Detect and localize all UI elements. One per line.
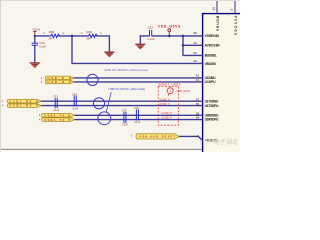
wire reset to chip bbox=[179, 136, 203, 141]
wire TX_N to chip U1RXDNU bbox=[75, 114, 203, 116]
svg-text:VBUSM: VBUSM bbox=[205, 62, 216, 66]
pin 36 U1TXDPU bbox=[196, 102, 219, 108]
pin 41 U1DPU bbox=[196, 78, 216, 84]
pin 42 U1DMU bbox=[196, 74, 216, 81]
wire USB_D_P to chip bbox=[74, 81, 203, 83]
net label USB1_TX_P bbox=[39, 118, 75, 122]
net label USB_D_N bbox=[41, 76, 74, 80]
svg-text:U1TXDPU: U1TXDPU bbox=[205, 104, 219, 108]
pin label VDD33A (vertical) bbox=[234, 15, 238, 35]
svg-text:0.1uF: 0.1uF bbox=[53, 110, 59, 112]
svg-text:9: 9 bbox=[230, 9, 234, 11]
pin 48 V3REGIN bbox=[193, 31, 219, 38]
svg-text:doNET_USB2: doNET_USB2 bbox=[158, 82, 181, 86]
pin 9 stub (top VDD33A) bbox=[230, 1, 235, 14]
ground under C30 bbox=[30, 63, 40, 67]
power port G5VN bbox=[32, 28, 40, 36]
pin 43 VBUSM bbox=[193, 59, 216, 66]
svg-text:0.1uF: 0.1uF bbox=[148, 37, 155, 41]
svg-text:U1DPU: U1DPU bbox=[205, 80, 217, 84]
svg-text:USB1_RX_P: USB1_RX_P bbox=[9, 104, 38, 108]
svg-text:USB1_TX_P: USB1_TX_P bbox=[44, 118, 70, 122]
svg-text:36: 36 bbox=[196, 102, 200, 106]
svg-text:USB S3 (90Ohm-differential): USB S3 (90Ohm-differential) bbox=[109, 87, 146, 91]
svg-text:1: 1 bbox=[100, 31, 102, 35]
svg-text:43: 43 bbox=[193, 59, 197, 63]
net label USB1_RX_N bbox=[2, 99, 42, 103]
svg-text:42: 42 bbox=[196, 74, 200, 78]
IC U1 chip body bbox=[203, 14, 248, 159]
svg-text:了: 了 bbox=[199, 139, 204, 145]
svg-text:xUSB2_N: xUSB2_N bbox=[159, 98, 170, 101]
window bottom border bbox=[0, 149, 240, 150]
svg-text:VBUSM: VBUSM bbox=[216, 15, 220, 30]
svg-text:USB1_TX_N: USB1_TX_N bbox=[44, 113, 70, 117]
annotation circle 1 bbox=[167, 88, 173, 96]
node at branch bbox=[182, 35, 185, 38]
svg-text:35: 35 bbox=[196, 111, 200, 115]
svg-text:R33: R33 bbox=[49, 30, 55, 34]
pin 2 RESETN bbox=[197, 134, 218, 142]
svg-text:49: 49 bbox=[212, 7, 216, 11]
svg-text:C31: C31 bbox=[148, 26, 154, 30]
pin 44 BUSSEL bbox=[193, 51, 217, 58]
capacitor C35 bbox=[122, 109, 129, 127]
pin 10 AVDD33R bbox=[193, 41, 220, 48]
wire VDD rail right bbox=[152, 35, 203, 37]
svg-text:USB1_RX_N: USB1_RX_N bbox=[9, 99, 38, 103]
svg-text:34: 34 bbox=[196, 116, 200, 120]
svg-text:VDD33A: VDD33A bbox=[234, 15, 238, 35]
capacitor C33 bbox=[53, 94, 60, 111]
svg-text:41: 41 bbox=[196, 78, 200, 82]
wire USB_D_N to chip bbox=[74, 77, 203, 79]
power port VDD_G5VS bbox=[158, 25, 181, 36]
pair annotation circle row3 bbox=[98, 112, 111, 125]
window top border bbox=[0, 0, 240, 2]
svg-text:C33: C33 bbox=[53, 94, 58, 98]
svg-text:10: 10 bbox=[193, 41, 197, 45]
wire node A down to VBUSM pin bbox=[72, 36, 203, 64]
window left border bbox=[0, 0, 1, 152]
svg-text:U1RXDPU: U1RXDPU bbox=[205, 118, 219, 122]
wire RX_P to chip U1TXDPU bbox=[41, 105, 202, 107]
svg-text:BUSSEL: BUSSEL bbox=[205, 54, 217, 58]
wire R46 to ground bbox=[96, 36, 109, 52]
svg-text:0.1uF: 0.1uF bbox=[72, 108, 78, 110]
svg-text:0.1uF: 0.1uF bbox=[134, 122, 140, 124]
svg-text:电子湖北: 电子湖北 bbox=[214, 138, 240, 146]
node at AVDD33R branch bbox=[182, 44, 185, 47]
svg-text:USB H5 (90Ohm-differential): USB H5 (90Ohm-differential) bbox=[104, 68, 148, 72]
pair annotation circle row1 bbox=[87, 74, 98, 85]
resistor R46 bbox=[81, 30, 102, 40]
capacitor C31 bbox=[140, 26, 155, 44]
net label USB_D_P bbox=[41, 80, 74, 84]
ground under R46 bbox=[104, 52, 114, 56]
pin 49 stub (top VBUSM) bbox=[212, 1, 217, 14]
svg-text:37: 37 bbox=[196, 97, 200, 101]
leader line bbox=[106, 92, 111, 112]
wire TX_P to chip U1RXDPU bbox=[75, 119, 203, 121]
capacitor C30 bbox=[32, 36, 47, 63]
room doNET_USB2 bbox=[158, 82, 181, 125]
svg-text:0R: 0R bbox=[87, 36, 91, 40]
svg-text:2: 2 bbox=[197, 134, 199, 138]
net label USB1_TX_N bbox=[39, 113, 75, 117]
wire VDD rail left bbox=[35, 35, 50, 37]
capacitor C36 bbox=[134, 106, 141, 124]
ground under C31 bbox=[135, 44, 145, 48]
net label USB1_RX_P bbox=[2, 104, 42, 108]
node junction at power and cap bbox=[34, 35, 36, 37]
wire branch to AVDD33R bbox=[183, 44, 203, 46]
net label USB_HUB_RESET bbox=[131, 134, 180, 139]
svg-text:VDD_G5VS: VDD_G5VS bbox=[158, 25, 181, 29]
svg-text:AVDD33R: AVDD33R bbox=[205, 44, 221, 48]
svg-text:44: 44 bbox=[193, 51, 197, 55]
node at power stub bbox=[168, 35, 171, 38]
svg-text:0R: 0R bbox=[49, 36, 53, 40]
node junction A bbox=[71, 35, 74, 38]
svg-text:2: 2 bbox=[81, 31, 83, 35]
svg-text:1: 1 bbox=[169, 89, 171, 93]
svg-text:0.1uF: 0.1uF bbox=[39, 44, 46, 48]
svg-text:0.1uF: 0.1uF bbox=[122, 125, 128, 127]
pin label VBUSM (vertical) bbox=[216, 15, 220, 30]
svg-text:R46: R46 bbox=[86, 30, 92, 34]
pin 34 U1RXDPU bbox=[196, 116, 219, 122]
wire branch to BUSSEL bbox=[183, 36, 203, 56]
capacitor C34 bbox=[72, 92, 79, 110]
pin 37 U1TXDNU bbox=[196, 97, 219, 103]
schematic background bbox=[0, 0, 240, 152]
svg-text:1: 1 bbox=[62, 31, 64, 35]
svg-text:USB_HUB_RESET: USB_HUB_RESET bbox=[139, 135, 175, 139]
pair annotation circle row2 bbox=[93, 98, 104, 109]
svg-text:48: 48 bbox=[193, 31, 197, 35]
svg-text:2: 2 bbox=[43, 31, 45, 35]
svg-text:USB_ROM: USB_ROM bbox=[176, 89, 190, 93]
wire RX_N to chip U1TXDNU bbox=[41, 100, 202, 102]
pin 35 U1RXDNU bbox=[196, 111, 219, 117]
svg-text:xUSB2_P: xUSB2_P bbox=[159, 103, 170, 106]
svg-text:V3REGIN: V3REGIN bbox=[205, 34, 220, 38]
wire R33 to junction bbox=[59, 35, 88, 37]
resistor R33 bbox=[43, 30, 64, 40]
